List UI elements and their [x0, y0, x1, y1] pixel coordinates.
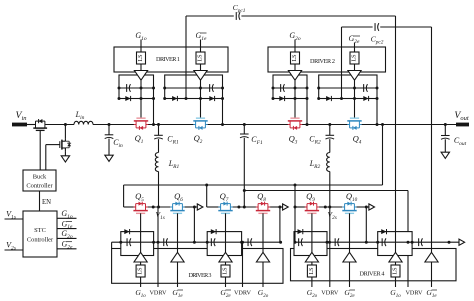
label G1o driver4	[390, 288, 401, 299]
junction Q7 right	[237, 206, 240, 209]
diode driver2 right	[363, 96, 368, 101]
inductor LR1	[155, 153, 158, 172]
block driver1 right bootstrap box	[165, 75, 223, 99]
wire output rail right rise to bus	[382, 125, 384, 186]
capacitor Cpc1	[236, 12, 240, 20]
wire row cell2 mid	[230, 206, 258, 208]
diode driver4 box1	[298, 229, 303, 234]
junction driver2 rows	[272, 87, 379, 101]
svg-text:STC: STC	[34, 227, 46, 234]
wire row cell3 mid	[317, 206, 343, 208]
svg-text:DRIVER 3: DRIVER 3	[189, 272, 212, 279]
label VDRV1 driver4	[321, 290, 339, 297]
wire buffer4 input driver4	[431, 262, 433, 287]
buffer driver4 t4	[425, 252, 438, 262]
label Cout	[454, 136, 467, 147]
label DRIVER 3	[189, 272, 212, 279]
wire row cell3 right	[356, 206, 369, 208]
label V2s input	[6, 241, 16, 252]
transistor Q7	[218, 202, 232, 214]
wire LS3a down	[140, 277, 142, 287]
capacitor driver4 cap3	[382, 238, 386, 246]
transistor Q9	[305, 202, 319, 214]
wire row cell3	[295, 206, 307, 208]
wire CF1 rail	[244, 190, 408, 192]
junction driver1 rightbox drop	[221, 123, 224, 126]
wire driver2 leftbox to bus	[306, 99, 308, 125]
wire LS4b down	[395, 277, 397, 287]
transistor Q5	[133, 202, 147, 214]
label EN	[42, 199, 51, 206]
wire Cpc1 drop lower part	[395, 232, 397, 253]
wire rail to Q9	[294, 185, 296, 207]
wire row cell1	[124, 206, 136, 208]
block DRIVER1 box	[114, 47, 228, 72]
diode driver3 box2	[211, 229, 216, 234]
capacitor driver2 boot cap left	[281, 84, 285, 92]
level-shifter driver2 left	[291, 52, 300, 64]
capacitor driver3 cap1	[127, 238, 131, 246]
junction CF1 bottom	[243, 206, 246, 209]
svg-text:VDRV: VDRV	[405, 290, 423, 297]
wire row cell2 right	[268, 206, 283, 208]
junction cell1 feed	[193, 206, 196, 209]
capacitor CR1	[154, 135, 163, 139]
wire Lin to Q1	[93, 124, 136, 126]
svg-text:Buck: Buck	[33, 174, 47, 181]
wire driver1 cap row right	[165, 87, 223, 89]
wire driver2 cap row left	[273, 87, 307, 89]
level-shifter driver3 b	[221, 265, 230, 277]
label G1e driver3	[172, 288, 183, 299]
label G2o driver3	[258, 288, 269, 299]
diode driver1 right	[209, 96, 214, 101]
label G1o driver3	[135, 288, 146, 299]
wire Q9 gate column	[311, 213, 313, 252]
junction CF1 rail start	[243, 189, 246, 192]
label Cin	[113, 138, 123, 149]
junction rail to Q9	[294, 206, 297, 209]
wire Cpc1 top-left segment	[186, 15, 234, 17]
level-shifter driver4 a	[307, 265, 316, 277]
diode driver1 left	[125, 96, 130, 101]
wire cell1 feed down	[193, 207, 195, 242]
wire buffer1 to LS	[140, 262, 142, 265]
wire Cpc1 drop inside driver1 box	[185, 75, 187, 99]
wire buck LS drain	[64, 125, 66, 139]
transistor Q6	[170, 202, 184, 214]
svg-text:DRIVER 1: DRIVER 1	[156, 56, 180, 63]
wire EN	[39, 191, 41, 211]
wire Q5 gate column	[140, 213, 142, 252]
label VDRV2 driver4	[405, 290, 423, 297]
label Cpc2	[371, 35, 384, 46]
ground Cin	[105, 155, 113, 161]
svg-text:LS: LS	[393, 267, 399, 274]
wire LR2 down to V2s node	[329, 172, 331, 208]
wire LS1b to buffer	[200, 64, 202, 71]
wire Q4 to Vout	[359, 124, 456, 126]
wire Cout top	[444, 125, 446, 136]
wire LR1 down to V1s node	[158, 172, 160, 208]
label DRIVER 1	[156, 56, 180, 63]
wire buck LS source to ground	[64, 151, 66, 155]
junction CF1 tap	[243, 123, 246, 126]
svg-text:Controller: Controller	[27, 237, 54, 244]
label G2e driver3	[220, 288, 231, 299]
wire buffer1 to LS driver4	[311, 262, 313, 265]
diode driver2 mid	[326, 96, 331, 101]
wire G1o output	[57, 217, 77, 219]
svg-text:LS: LS	[309, 267, 315, 274]
buffer driver3 t1	[134, 252, 147, 262]
label G1o output	[61, 209, 73, 220]
wire Q2 gate column	[200, 80, 202, 118]
wire output rail	[124, 184, 383, 186]
arrow cell1 out	[197, 204, 203, 210]
label Vin	[15, 110, 26, 122]
wire Cin top	[108, 125, 110, 135]
label DRIVER 4	[360, 271, 385, 278]
wire buffer3 to LS	[225, 262, 227, 265]
wire LS2b to buffer	[354, 64, 356, 71]
label G1e output	[62, 219, 74, 230]
wire CR2 top	[329, 125, 331, 136]
label CR2	[309, 135, 321, 146]
svg-text:LS: LS	[138, 267, 144, 274]
block STC Controller box	[23, 211, 57, 257]
wire buck HS gate down	[39, 131, 41, 170]
junction driver4 cap row dots	[294, 241, 451, 244]
wire buffer3 to LS driver4	[395, 262, 397, 265]
junction V2s node	[328, 206, 331, 209]
svg-text:LS: LS	[138, 54, 144, 61]
block Buck Controller box	[23, 170, 56, 191]
wire Q6 gate column	[177, 213, 179, 252]
wire buffer2 input driver4	[349, 262, 351, 287]
wire driver1 rightbox to bus	[222, 99, 224, 125]
wire driver2 cap row right	[319, 87, 377, 89]
svg-text:DRIVER 4: DRIVER 4	[360, 271, 385, 278]
capacitor driver1 boot cap right	[210, 84, 214, 92]
arrow driver4 cap row out	[459, 239, 465, 245]
junction cell3 feed	[365, 206, 368, 209]
capacitor driver1 boot cap left	[127, 84, 131, 92]
buffer driver3 t4	[256, 252, 269, 262]
buffer driver1 right	[194, 71, 207, 81]
wire LS4a down	[311, 277, 313, 287]
capacitor CR2	[326, 135, 335, 139]
label LR2	[309, 159, 321, 170]
capacitor Cpc2	[375, 23, 379, 31]
junction driver3 cap row dots	[119, 241, 282, 244]
wire rail column to driver4 caprow	[294, 207, 296, 242]
label G1e driver1	[196, 31, 208, 42]
wire CR1 to LR1	[158, 139, 160, 152]
junction rail Q7 drop	[205, 184, 208, 187]
wire Cpc1 left drop to driver1 diode row	[185, 16, 187, 75]
wire V2s input	[5, 249, 24, 251]
block driver4 bootstrap box2	[378, 232, 412, 256]
wire G1o stub driver1	[140, 40, 142, 53]
transistor Q4	[347, 118, 361, 130]
level-shifter driver1 left	[137, 52, 146, 64]
wire buck LS gate down	[45, 145, 47, 170]
wire G1e output	[57, 228, 77, 230]
label G2e output	[62, 240, 74, 251]
label Q8	[257, 191, 266, 203]
label Q3	[289, 134, 298, 146]
label G1o driver1	[135, 31, 147, 42]
wire driver3 left edge rise	[111, 242, 113, 248]
wire Q7 gate column	[225, 213, 227, 252]
diode driver2 left	[279, 96, 284, 101]
wire row cell2	[207, 206, 221, 208]
capacitor driver3 cap3	[211, 238, 215, 246]
label Vout	[454, 110, 468, 122]
capacitor driver4 cap4	[419, 238, 423, 246]
wire LS3b down	[225, 277, 227, 287]
ground Cout	[441, 152, 449, 158]
label Q9	[306, 191, 315, 203]
inductor LR2	[327, 153, 330, 172]
wire output rail left drop	[123, 185, 125, 207]
label Lin	[75, 110, 85, 121]
junction driver2 rightbox drop	[376, 123, 379, 126]
label V1s node	[156, 210, 165, 221]
label G2o output	[61, 229, 73, 240]
wire V1s input	[5, 218, 24, 220]
wire VDRV1 driver4	[329, 207, 331, 287]
junction rail Q9 drop	[294, 184, 297, 187]
block DRIVER4 box	[291, 249, 457, 281]
junction CR2 tap	[328, 123, 331, 126]
wire rail to Q7	[206, 185, 208, 207]
wire driver3 cap row	[112, 241, 281, 243]
wire LS2a to buffer	[294, 64, 296, 71]
junction Cout tap	[444, 123, 447, 126]
label V2s node	[328, 210, 337, 221]
wire Q1 to Q2	[146, 124, 196, 126]
node Vin terminal	[12, 123, 27, 127]
wire G2e output	[57, 248, 77, 250]
wire Cpc2 left drop to driver2 diode row	[341, 27, 343, 75]
label VDRV1 driver3	[149, 290, 167, 297]
junction V1s node	[157, 206, 160, 209]
capacitor driver2 boot cap right	[364, 84, 368, 92]
wire Cin bottom	[108, 139, 110, 156]
label Q2	[194, 133, 203, 145]
label Q7	[220, 191, 229, 203]
buffer driver4 t2	[343, 252, 356, 262]
wire cell3 feed down	[365, 207, 367, 242]
buffer driver4 t1	[305, 252, 318, 262]
block driver1 left bootstrap box	[119, 75, 154, 99]
label G1e driver4	[426, 288, 437, 299]
wire driver1 leftbox to bus	[153, 99, 155, 125]
label G2e driver2	[349, 34, 361, 45]
wire G2e stub driver2	[354, 43, 356, 53]
wire G2o output	[57, 237, 77, 239]
capacitor driver3 cap2	[164, 238, 168, 246]
wire cell2 feed down	[279, 207, 281, 242]
label Q10	[346, 191, 358, 203]
wire Cpc2 drop inside driver2 box	[341, 75, 343, 99]
junction output rail drop	[381, 123, 384, 126]
junction driver1 leftbox drop	[152, 123, 155, 126]
node Vout terminal	[456, 123, 469, 127]
label Controller(stc)	[27, 237, 54, 244]
svg-text:VDRV: VDRV	[321, 290, 339, 297]
wire driver2 rightbox to bus	[376, 99, 378, 125]
wire Q2 to Q3	[205, 124, 290, 126]
svg-text:LS: LS	[292, 54, 298, 61]
wire G2o stub driver2	[294, 40, 296, 53]
junction Q5 right	[152, 206, 155, 209]
junction cell2 feed	[278, 206, 281, 209]
label LR1	[168, 159, 180, 170]
svg-text:VDRV: VDRV	[234, 290, 252, 297]
wire CF1 down to lower network	[243, 138, 245, 207]
label Q4	[353, 134, 362, 146]
buffer driver4 t3	[389, 252, 402, 262]
diode driver4 box2	[381, 229, 386, 234]
label CR1	[167, 135, 179, 146]
wire Cout bottom	[444, 139, 446, 152]
capacitor CF1	[240, 134, 249, 138]
transistor Q2	[193, 118, 207, 130]
wire Cpc2 right drop to driver4 buffer	[431, 27, 433, 252]
level-shifter driver3 a	[136, 265, 145, 277]
inductor Lin	[74, 121, 93, 124]
svg-text:EN: EN	[42, 199, 51, 206]
junction Q9 right	[324, 206, 327, 209]
svg-text:LS: LS	[198, 54, 204, 61]
buffer driver3 t3	[219, 252, 232, 262]
diode driver3 box1	[124, 229, 129, 234]
junction buck low-side tap	[64, 123, 67, 126]
buffer driver3 t2	[171, 252, 184, 262]
wire Cpc1 right drop to driver4 buffer	[395, 16, 397, 232]
junction driver1 rows	[118, 87, 225, 101]
capacitor Cin	[105, 135, 114, 139]
wire G1e stub driver1	[200, 40, 202, 53]
transistor buck low-side	[46, 139, 71, 152]
wire CR2 to LR2	[329, 139, 331, 152]
wire Cpc2 top-right segment	[380, 26, 431, 28]
wire Q3 gate column	[294, 80, 296, 118]
wire Q4 gate column	[354, 80, 356, 118]
junction CR1 tap	[157, 123, 160, 126]
label Q5	[135, 191, 144, 203]
capacitor driver3 cap4	[248, 238, 252, 246]
wire row cell1 right	[184, 206, 197, 208]
wire driver1 cap row left	[119, 87, 154, 89]
transistor buck high-side	[33, 119, 47, 131]
diode driver1 mid	[172, 96, 177, 101]
capacitor Cout	[441, 136, 450, 140]
transistor Q10	[342, 202, 356, 214]
wire buffer4 input	[262, 262, 264, 287]
buffer driver2 left	[288, 71, 301, 81]
junction Cin tap	[108, 123, 111, 126]
label Q6	[174, 191, 183, 203]
block driver4 bootstrap box1	[294, 232, 327, 256]
wire buffer2 input	[177, 262, 179, 287]
label DRIVER 2	[310, 58, 335, 65]
label Cpc1	[233, 3, 246, 14]
label Q1	[135, 133, 144, 145]
wire VDRV1 driver3	[157, 207, 159, 287]
wire Cpc2 top-left segment	[342, 26, 373, 28]
level-shifter driver2 right	[350, 52, 359, 64]
wire Vin to buck switch	[27, 124, 35, 126]
level-shifter driver1 right	[196, 52, 205, 64]
wire CF1 rail drop to driver4	[407, 191, 409, 288]
wire CR1 top	[158, 125, 160, 136]
arrow cell2 out	[283, 204, 289, 210]
label G2o driver4	[307, 288, 318, 299]
ground buck low-side	[61, 156, 69, 162]
wire driver4 cap row	[295, 241, 459, 243]
wire row cell1 mid	[146, 206, 171, 208]
label Buck	[33, 174, 47, 181]
svg-text:LS: LS	[223, 267, 229, 274]
transistor Q1	[134, 118, 148, 130]
wire Q10 gate column	[349, 213, 351, 252]
block driver3 bootstrap box1	[121, 232, 154, 256]
svg-text:VDRV: VDRV	[149, 290, 167, 297]
wire VDRV2 driver3	[242, 242, 244, 287]
wire LS1a to buffer	[140, 64, 142, 71]
wire Q1 gate column	[140, 80, 142, 118]
block DRIVER3 box	[112, 249, 283, 284]
label STC	[34, 227, 46, 234]
label V1s input	[6, 210, 16, 221]
buffer driver1 left	[134, 71, 147, 81]
label G2e driver4	[344, 288, 355, 299]
wire CF1 top	[243, 125, 245, 135]
block driver2 left bootstrap box	[273, 75, 307, 99]
transistor Q8	[256, 202, 270, 214]
block DRIVER2 box	[268, 47, 386, 72]
arrow cell3 out	[369, 204, 375, 210]
transistor Q3	[288, 118, 302, 130]
label G2o driver2	[289, 31, 301, 42]
wire Q8 gate column	[262, 213, 264, 252]
block driver3 bootstrap box2	[207, 232, 241, 256]
wire buck switch to Lin	[45, 124, 74, 126]
wire Cpc1 top-right segment	[241, 15, 395, 17]
svg-text:Controller: Controller	[26, 183, 53, 190]
block driver2 right bootstrap box	[319, 75, 377, 99]
label VDRV2 driver3	[234, 290, 252, 297]
wire Q3 to Q4	[300, 124, 350, 126]
junction driver2 leftbox drop	[306, 123, 309, 126]
buffer driver2 right	[348, 71, 361, 81]
level-shifter driver4 b	[391, 265, 400, 277]
label CF1	[251, 135, 263, 146]
capacitor driver4 cap2	[335, 238, 339, 246]
svg-text:LS: LS	[352, 54, 358, 61]
svg-text:DRIVER 2: DRIVER 2	[310, 58, 335, 65]
capacitor driver4 cap1	[299, 238, 303, 246]
label Controller(buck)	[26, 183, 53, 190]
